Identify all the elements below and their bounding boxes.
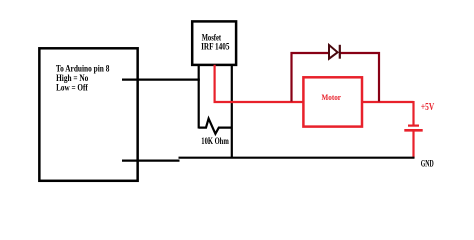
svg-text:IRF 1405: IRF 1405: [201, 42, 230, 52]
Arduino box label "To Arduino pin 8 / High = No / Low = Off": [56, 63, 110, 92]
wire: MOSFET drain (red) to motor: [215, 65, 304, 102]
wire: ground rail left segment (from Arduino box): [122, 160, 180, 162]
svg-text:10K Ohm: 10K Ohm: [201, 136, 229, 146]
wire: motor to +5V battery (red): [362, 101, 414, 103]
svg-text:Motor: Motor: [322, 92, 342, 102]
wire: ground rail right segment: [179, 157, 415, 159]
MOSFET label "Mosfet IRF 1405": [201, 33, 230, 52]
wire: MOSFET gate pin (vertical): [198, 65, 200, 129]
MOSFET U1 box: [192, 21, 236, 65]
wire: flyback loop left leg (dark red): [292, 53, 330, 102]
battery negative long plate: [404, 129, 422, 132]
svg-text:To Arduino pin 8: To Arduino pin 8: [56, 63, 110, 73]
wire: Arduino pin 8 to MOSFET gate: [122, 78, 200, 80]
svg-text:+5V: +5V: [421, 102, 435, 113]
resistor R1 10K (zigzag between gate and source): [199, 119, 232, 134]
battery B1 +5V top lead (red): [412, 101, 414, 125]
Arduino control box: [39, 48, 137, 181]
wire: flyback loop right leg (dark red): [341, 53, 380, 102]
battery bottom lead to ground (red): [412, 131, 414, 158]
motor M1 box: [303, 77, 362, 126]
svg-text:GND: GND: [421, 160, 434, 170]
battery positive short plate: [408, 124, 419, 126]
svg-text:Low = Off: Low = Off: [56, 83, 88, 93]
wire: MOSFET source pin down to ground rail: [231, 65, 233, 159]
diode D1 flyback (triangle + cathode bar): [329, 45, 340, 59]
